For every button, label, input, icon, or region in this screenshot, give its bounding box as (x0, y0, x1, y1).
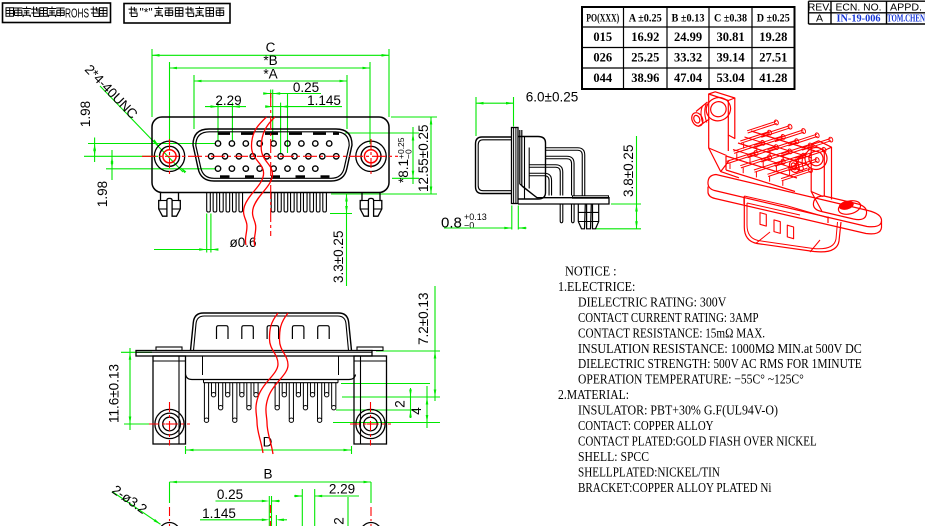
svg-text:7.2±0.13: 7.2±0.13 (416, 293, 431, 345)
svg-text:044: 044 (593, 71, 613, 85)
svg-text:24.99: 24.99 (674, 30, 702, 44)
svg-text:38.96: 38.96 (631, 71, 659, 85)
svg-text:BRACKET:COPPER ALLOY PLATED Ni: BRACKET:COPPER ALLOY PLATED Ni (578, 481, 772, 496)
svg-text:27.51: 27.51 (759, 51, 787, 65)
svg-text:2.MATERIAL:: 2.MATERIAL: (558, 388, 629, 403)
svg-text:C ±0.38: C ±0.38 (714, 11, 747, 25)
svg-text:2.29: 2.29 (329, 482, 355, 497)
svg-text:*A: *A (263, 67, 277, 82)
svg-text:TOM.CHEN: TOM.CHEN (887, 14, 925, 25)
svg-text:CONTACT CURRENT RATING: 3AMP: CONTACT CURRENT RATING: 3AMP (578, 311, 759, 326)
svg-text:B ±0.13: B ±0.13 (672, 11, 705, 25)
svg-text:0.25: 0.25 (217, 487, 243, 502)
svg-text:6.0±0.25: 6.0±0.25 (526, 90, 578, 105)
svg-text:16.92: 16.92 (631, 30, 659, 44)
svg-text:−0: −0 (464, 221, 474, 231)
svg-text:DIELECTRIC STRENGTH: 500V AC R: DIELECTRIC STRENGTH: 500V AC RMS FOR 1MI… (578, 357, 862, 372)
svg-text:REV.: REV. (808, 1, 832, 13)
svg-text:APPD.: APPD. (890, 1, 922, 13)
svg-text:"*": "*" (140, 6, 153, 20)
svg-text:39.14: 39.14 (716, 51, 745, 65)
svg-text:SHELLPLATED:NICKEL/TIN: SHELLPLATED:NICKEL/TIN (578, 465, 720, 480)
svg-text:11.6±0.13: 11.6±0.13 (107, 364, 122, 423)
svg-text:1.ELECTRICE:: 1.ELECTRICE: (558, 280, 635, 295)
svg-text:1.98: 1.98 (78, 101, 93, 127)
svg-text:2: 2 (332, 517, 347, 525)
svg-text:2.29: 2.29 (215, 93, 241, 108)
svg-text:3.8±0.25: 3.8±0.25 (621, 145, 636, 197)
svg-text:OPERATION TEMPERATURE: −55C° ~: OPERATION TEMPERATURE: −55C° ~125C° (578, 373, 804, 388)
svg-text:12.55±0.25: 12.55±0.25 (416, 125, 431, 192)
svg-text:CONTACT RESISTANCE: 15mΩ MAX.: CONTACT RESISTANCE: 15mΩ MAX. (578, 326, 765, 341)
svg-text:1.145: 1.145 (307, 93, 341, 108)
svg-text:CONTACT: COPPER ALLOY: CONTACT: COPPER ALLOY (578, 419, 714, 434)
svg-text:015: 015 (593, 30, 612, 44)
svg-text:IN-19-006: IN-19-006 (837, 14, 881, 25)
svg-text:DIELECTRIC RATING: 300V: DIELECTRIC RATING: 300V (578, 295, 726, 310)
svg-text:19.28: 19.28 (759, 30, 787, 44)
svg-text:ECN. NO.: ECN. NO. (836, 1, 882, 13)
svg-text:47.04: 47.04 (674, 71, 703, 85)
svg-text:CONTACT PLATED:GOLD FIASH OVER: CONTACT PLATED:GOLD FIASH OVER NICKEL (578, 434, 817, 449)
svg-text:D ±0.25: D ±0.25 (757, 11, 790, 25)
svg-text:*8.1: *8.1 (396, 159, 411, 183)
svg-text:4: 4 (409, 407, 424, 415)
svg-text:25.25: 25.25 (631, 51, 659, 65)
svg-text:A: A (816, 13, 823, 25)
svg-text:53.04: 53.04 (716, 71, 745, 85)
svg-text:41.28: 41.28 (759, 71, 787, 85)
svg-text:SHELL: SPCC: SHELL: SPCC (578, 450, 649, 465)
svg-text:ø0.6: ø0.6 (229, 235, 256, 250)
svg-text:3.3±0.25: 3.3±0.25 (331, 231, 346, 283)
svg-text:PO(XXX): PO(XXX) (586, 11, 619, 25)
svg-text:INSULATION RESISTANCE: 1000MΩ: INSULATION RESISTANCE: 1000MΩ MIN.at 500… (578, 342, 862, 357)
svg-text:B: B (263, 467, 272, 482)
svg-text:−0: −0 (404, 149, 414, 159)
svg-text:30.81: 30.81 (716, 30, 744, 44)
svg-text:NOTICE :: NOTICE : (565, 265, 617, 280)
svg-text:33.32: 33.32 (674, 51, 702, 65)
svg-text:1.98: 1.98 (95, 181, 110, 207)
svg-text:0.8: 0.8 (441, 215, 462, 232)
svg-text:A ±0.25: A ±0.25 (629, 11, 662, 25)
svg-text:1.145: 1.145 (202, 506, 236, 521)
svg-text:2: 2 (393, 400, 408, 408)
svg-text:INSULATOR: PBT+30% G.F(UL94V-O: INSULATOR: PBT+30% G.F(UL94V-O) (578, 404, 778, 419)
svg-text:026: 026 (593, 51, 612, 65)
svg-text:ROHS: ROHS (65, 6, 89, 20)
